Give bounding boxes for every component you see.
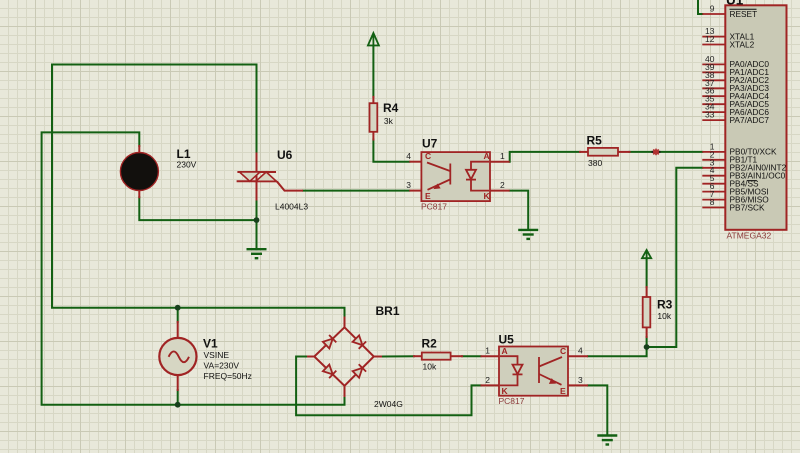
- svg-text:FREQ=50Hz: FREQ=50Hz: [204, 371, 252, 381]
- source V1 labels: [203, 337, 252, 382]
- resistor R2 labels: [422, 337, 438, 372]
- svg-text:10k: 10k: [657, 311, 671, 321]
- wire net T2 top loop: [52, 65, 345, 318]
- wire R5 to U1 PB0: [630, 151, 703, 153]
- ground below U7 pin2: [518, 230, 538, 239]
- svg-text:A: A: [502, 346, 508, 356]
- wire lamp bottom to triac: [139, 197, 256, 220]
- resistor R3 labels: [657, 298, 673, 321]
- svg-text:10k: 10k: [423, 362, 437, 372]
- U7 pin stubs: [409, 162, 509, 191]
- resistor R2: [422, 353, 451, 360]
- resistor R5 labels: [587, 134, 603, 169]
- bridge BR1: [314, 327, 374, 386]
- bridge BR1 diode UL: [323, 335, 336, 348]
- junction node R3 bottom: [644, 344, 650, 350]
- red lead V1 bottom: [177, 375, 179, 390]
- red lead R2 left: [414, 355, 422, 357]
- red lead R2 right: [451, 355, 462, 357]
- U1 PB4 SS overline: [747, 180, 757, 182]
- svg-text:RESET: RESET: [730, 9, 758, 19]
- svg-text:3: 3: [578, 375, 583, 385]
- U5 pin stubs: [481, 356, 589, 385]
- svg-text:E: E: [560, 386, 566, 396]
- wire U5 pin3 to ground: [588, 385, 607, 435]
- svg-text:U6: U6: [277, 148, 293, 162]
- svg-text:L4004L3: L4004L3: [275, 202, 308, 212]
- svg-text:230V: 230V: [177, 160, 197, 170]
- U1 pin stubs: [702, 14, 725, 208]
- red lead lamp bottom: [138, 190, 140, 197]
- U5 pin letters: [502, 346, 567, 396]
- svg-text:4: 4: [578, 346, 583, 356]
- svg-text:U1: U1: [726, 0, 744, 8]
- bridge BR1 diode LL: [323, 365, 336, 379]
- svg-text:1: 1: [500, 151, 505, 161]
- red lead R3 top: [646, 287, 648, 297]
- svg-text:A: A: [484, 151, 490, 161]
- svg-text:3k: 3k: [384, 116, 394, 126]
- svg-text:1: 1: [485, 346, 490, 356]
- wire R3 top to power: [646, 258, 648, 287]
- svg-text:2: 2: [485, 375, 490, 385]
- wire U5 pin2 to BR1 left: [296, 357, 480, 416]
- red lead lamp top: [138, 146, 140, 153]
- source V1: [159, 338, 196, 375]
- optocoupler U7: [421, 152, 490, 201]
- svg-text:33: 33: [705, 110, 715, 120]
- svg-text:2W04G: 2W04G: [374, 399, 403, 409]
- junction node triac T1: [254, 217, 260, 223]
- wire triac gate to U7 pin3: [303, 190, 409, 192]
- optocoupler U5: [499, 347, 568, 396]
- svg-text:2: 2: [500, 180, 505, 190]
- U5 transistor: [539, 357, 562, 385]
- U7 pin numbers: [406, 151, 505, 190]
- triac U6 labels: [275, 148, 308, 212]
- svg-text:U7: U7: [422, 137, 438, 151]
- svg-text:4: 4: [406, 151, 411, 161]
- U5 diode: [500, 356, 523, 385]
- wire R4 bottom to U7 pin4: [373, 140, 409, 162]
- red lead R4 bottom: [372, 132, 374, 140]
- U7 labels: [421, 137, 447, 212]
- wire U7 pin2 to ground: [510, 191, 529, 230]
- bridge BR1 labels: [374, 304, 403, 409]
- svg-text:R2: R2: [422, 337, 438, 351]
- red lead BR1 top: [344, 318, 346, 328]
- wire triac T1 to ground: [256, 201, 258, 250]
- red lead R5 right: [618, 151, 630, 153]
- red lead BR1 left: [308, 356, 314, 358]
- red lead R3 bottom: [646, 327, 648, 337]
- svg-text:BR1: BR1: [376, 304, 400, 318]
- wire lamp top: [42, 132, 345, 404]
- svg-text:U5: U5: [499, 333, 515, 347]
- power arrow above R4: [368, 33, 379, 46]
- wire U1 RESET stub feed: [698, 0, 702, 14]
- red lead V1 top: [177, 322, 179, 339]
- svg-text:K: K: [484, 191, 491, 201]
- MCU U1 ATMEGA32: [725, 0, 786, 241]
- svg-text:3: 3: [406, 180, 411, 190]
- resistor R4 labels: [383, 101, 399, 126]
- ground below triac: [247, 249, 267, 258]
- wire U5 pin4 to R3 node to U1 PB2: [588, 168, 702, 356]
- resistor R5: [588, 148, 618, 156]
- red lead BR1 right: [374, 356, 381, 358]
- lamp L1 labels: [177, 147, 197, 170]
- wire BR1 right to R2: [381, 355, 414, 357]
- svg-text:R3: R3: [657, 298, 673, 312]
- junction node V1 top: [175, 305, 181, 311]
- U7 transistor: [427, 163, 450, 190]
- wire V1 plus lead: [177, 308, 179, 322]
- bridge BR1 diode LR: [353, 364, 367, 378]
- svg-text:12: 12: [705, 34, 715, 44]
- svg-text:C: C: [425, 151, 431, 161]
- red lead BR1 bottom: [344, 386, 346, 396]
- junction node V1 bottom: [175, 402, 181, 408]
- wire R3 node junction left: [646, 337, 648, 347]
- ground below U5 pin3: [597, 436, 617, 445]
- resistor R3: [643, 297, 651, 327]
- U1 pin names: [730, 9, 787, 213]
- svg-text:R4: R4: [383, 101, 399, 115]
- U5 labels: [499, 333, 525, 407]
- wire R4 top to power: [372, 46, 374, 97]
- U5 pin numbers: [485, 346, 583, 386]
- red lead R5 left: [580, 151, 588, 153]
- U1 pin numbers: [705, 4, 715, 208]
- U7 pin letters: [425, 151, 491, 201]
- bridge BR1 diode UR: [353, 335, 367, 348]
- svg-text:V1: V1: [203, 337, 218, 351]
- triac U6: [237, 153, 303, 201]
- svg-text:R5: R5: [587, 134, 603, 148]
- svg-text:K: K: [502, 386, 509, 396]
- power arrow above R3: [642, 250, 651, 258]
- resistor R4: [370, 103, 378, 132]
- svg-text:E: E: [425, 191, 431, 201]
- wire R2 to U5 pin1: [462, 355, 481, 357]
- svg-text:VSINE: VSINE: [204, 350, 230, 360]
- svg-text:VA=230V: VA=230V: [204, 361, 240, 371]
- U7 diode: [466, 162, 489, 191]
- U1 RESET overline: [730, 8, 757, 10]
- svg-text:PC817: PC817: [421, 202, 447, 212]
- svg-text:PB7/SCK: PB7/SCK: [730, 202, 766, 212]
- red marker on PB0 wire: [652, 149, 661, 156]
- red lead R4 top: [372, 97, 374, 103]
- svg-text:C: C: [560, 346, 566, 356]
- svg-text:PA7/ADC7: PA7/ADC7: [730, 115, 770, 125]
- svg-text:XTAL2: XTAL2: [730, 39, 755, 49]
- lamp L1: [120, 153, 158, 191]
- wire V1 minus lead: [177, 390, 179, 405]
- svg-text:380: 380: [588, 158, 602, 168]
- svg-text:ATMEGA32: ATMEGA32: [727, 231, 772, 241]
- wire U7 pin1 to R5: [510, 152, 580, 162]
- svg-text:PC817: PC817: [499, 396, 525, 406]
- svg-text:8: 8: [710, 197, 715, 207]
- svg-text:9: 9: [710, 4, 715, 14]
